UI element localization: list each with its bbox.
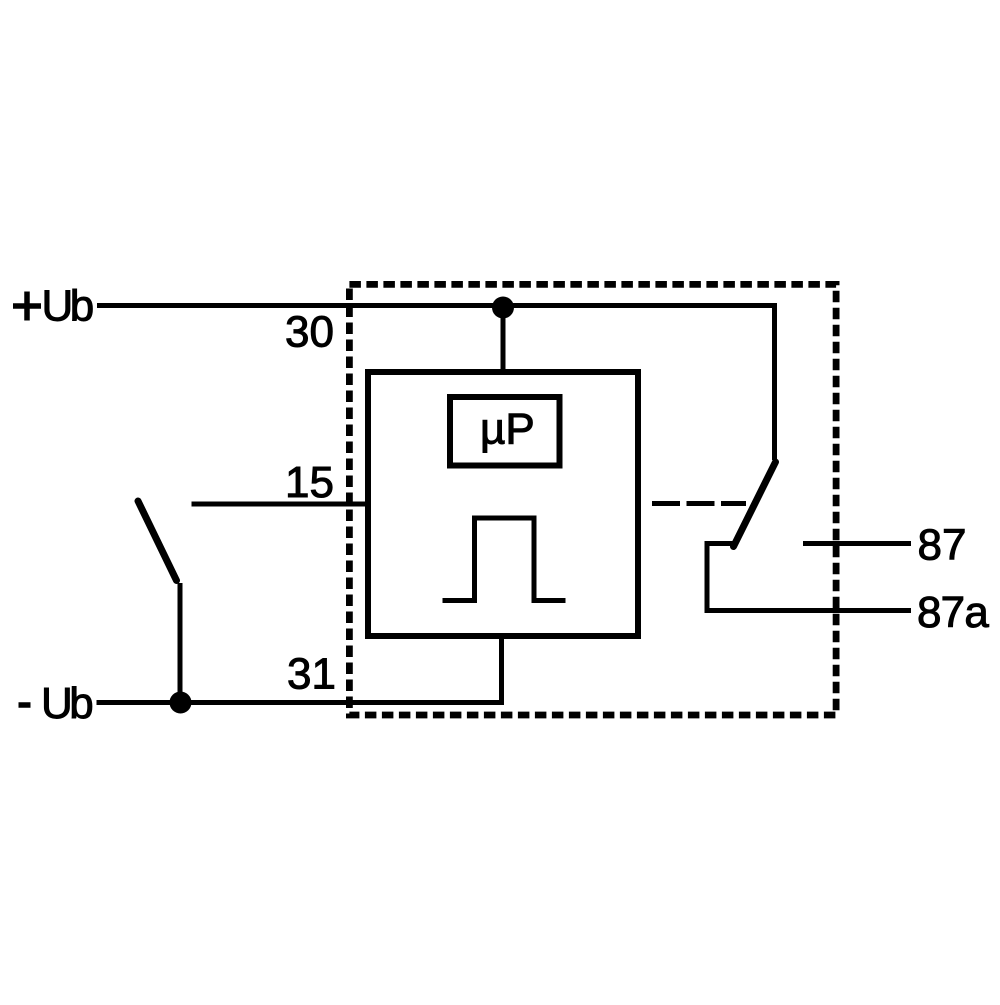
svg-text:µP: µP <box>480 405 535 454</box>
svg-text:30: 30 <box>285 308 334 357</box>
svg-text:87a: 87a <box>917 588 989 637</box>
svg-text:Ub: Ub <box>41 679 92 728</box>
svg-text:31: 31 <box>287 650 336 699</box>
svg-text:Ub: Ub <box>42 282 93 331</box>
svg-text:15: 15 <box>285 458 334 507</box>
svg-text:87: 87 <box>918 521 967 570</box>
